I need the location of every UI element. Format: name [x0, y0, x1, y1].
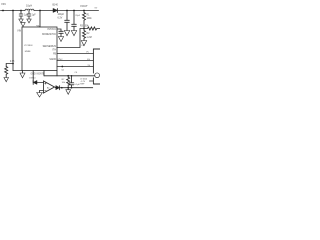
wire inverting input to ground [40, 91, 44, 93]
node C [66, 10, 68, 12]
connector J1 box [93, 49, 100, 84]
ground COUT2 [71, 31, 76, 36]
svg-text:6.3V: 6.3V [58, 17, 63, 19]
wire AGND stub [56, 71, 58, 76]
node C6 bottom [71, 87, 73, 89]
svg-text:SYNC: SYNC [57, 59, 63, 61]
node R4 branch [12, 63, 14, 65]
svg-text:MODE/SYNC: MODE/SYNC [42, 34, 56, 36]
node C6 top [71, 75, 73, 77]
node R6 top [67, 75, 69, 77]
resistor R1 [83, 11, 86, 29]
svg-text:0.68: 0.68 [10, 61, 15, 63]
node output [61, 87, 63, 89]
diode D1 [53, 9, 57, 13]
inductor L1 [25, 9, 34, 10]
resistor R5 horizontal [84, 27, 100, 30]
wire branch to R4 [6, 64, 13, 67]
resistor R4 [5, 67, 8, 78]
node on SYNC wire [61, 66, 63, 68]
IC U1 box [22, 27, 57, 71]
capacitor C6 [69, 76, 73, 88]
symbol above IC top-left [21, 23, 25, 27]
node FB divider [83, 28, 85, 30]
node D [73, 10, 75, 12]
capacitor COUT2 [72, 11, 77, 31]
node B [20, 10, 22, 12]
ground C4 [58, 37, 63, 42]
op-amp U2 [44, 81, 55, 93]
wire D2 to op-amp [37, 82, 44, 84]
ground below IC bottom-left [22, 71, 24, 74]
svg-text:VOUT: VOUT [80, 4, 88, 8]
wire SYNC to connector [57, 66, 93, 68]
ground COUT1 [64, 31, 69, 36]
op-amp input marks [45, 83, 47, 91]
wire bottom-left to IC [13, 70, 22, 72]
node VOUT [83, 10, 85, 12]
svg-text:1N914: 1N914 [29, 78, 36, 80]
svg-text:1.2M: 1.2M [87, 37, 92, 39]
svg-text:100μF: 100μF [58, 14, 65, 16]
wire top VIN rail [1, 10, 99, 12]
wire SS pin to connector [57, 60, 93, 62]
node A [12, 10, 14, 12]
node VIN entry [2, 10, 4, 12]
svg-text:VIN: VIN [1, 2, 6, 6]
svg-text:100k: 100k [87, 18, 93, 20]
svg-text:R3 100k: R3 100k [80, 26, 89, 28]
capacitor C4 [59, 31, 63, 36]
svg-text:MS8E: MS8E [25, 51, 31, 53]
ground CIN1 [19, 19, 23, 23]
ground CIN2 [27, 19, 31, 23]
node gnd bottom [67, 87, 69, 89]
svg-text:ITH: ITH [52, 50, 56, 52]
wire VC pin to connector [57, 53, 93, 55]
lamp circle at connector [95, 73, 100, 78]
reference stub to connector [90, 80, 94, 82]
resistor R2 [83, 29, 86, 41]
ground divider [81, 41, 86, 46]
wire gate rail [44, 75, 95, 77]
diode D2 pointing left [32, 81, 34, 85]
resistor R6 [67, 76, 70, 88]
ground R4 [4, 78, 9, 82]
wire left vertical from node A [12, 11, 14, 71]
wire VCC pin to bypass cap [57, 29, 61, 31]
svg-text:REF: REF [80, 84, 85, 86]
node SW [39, 10, 41, 12]
svg-text:SENSE/RUN: SENSE/RUN [43, 46, 57, 48]
svg-text:B140: B140 [53, 5, 59, 7]
svg-text:FB: FB [53, 53, 56, 55]
capacitor CIN2 [27, 11, 31, 20]
ground op-amp input [37, 93, 43, 98]
capacitor COUT1 [65, 11, 70, 31]
diode D3 pointing right [56, 86, 60, 90]
svg-text:-1.2V: -1.2V [80, 81, 86, 83]
svg-text:LT1004: LT1004 [80, 78, 88, 80]
svg-text:VIN: VIN [17, 30, 21, 32]
wire NGATE down [43, 71, 45, 76]
svg-text:1μF: 1μF [32, 15, 37, 17]
wire FB to divider [57, 29, 84, 48]
svg-text:SGND: SGND [49, 59, 56, 61]
wire op-amp output rail [55, 86, 93, 89]
svg-text:22μF: 22μF [75, 15, 81, 17]
ground bottom rail [67, 88, 69, 90]
svg-text:10μH: 10μH [26, 5, 32, 8]
svg-text:VC: VC [86, 51, 89, 53]
stub GND-pin to D2 [32, 71, 34, 83]
svg-text:LTC3803: LTC3803 [24, 45, 33, 47]
wire SW node to IC top [39, 11, 41, 28]
capacitor CIN1 [19, 11, 23, 20]
svg-text:INTVCC: INTVCC [47, 29, 56, 31]
